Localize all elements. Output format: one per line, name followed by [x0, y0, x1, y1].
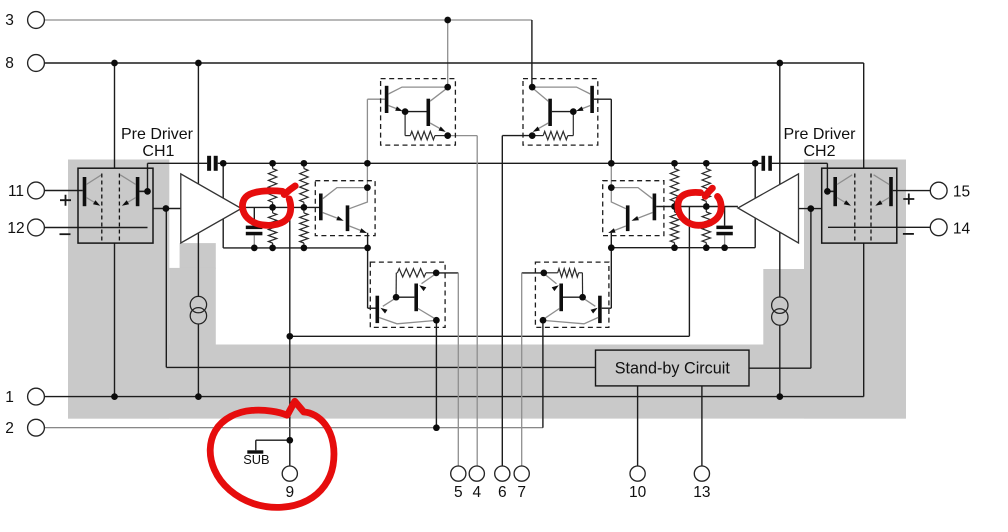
CH1 Q2 emitter wire	[122, 198, 136, 206]
pin 5 terminal	[451, 466, 466, 501]
wire pin14 input	[828, 226, 930, 228]
wire right supply rail x780 upper	[779, 63, 781, 297]
capacitor C1 left coupling	[207, 156, 218, 171]
svg-text:12: 12	[7, 220, 24, 237]
pin 6 terminal	[495, 466, 510, 501]
pin 7 terminal	[514, 466, 529, 501]
bottom-right base wire	[563, 296, 583, 298]
CH1 collector stub to output node	[139, 190, 147, 192]
wire bottom-left block to pin5	[436, 273, 458, 466]
wire left feedback drop	[222, 163, 224, 248]
gray watermark right step column	[763, 269, 804, 345]
gray watermark left step column	[169, 268, 216, 345]
wire right lower rail	[611, 247, 755, 249]
wire left shunt cap stubs	[253, 207, 255, 248]
label Pre Driver CH1	[121, 126, 194, 160]
CH1 Q2 collector wire	[120, 175, 136, 185]
bottom-left transistor Q14 bar	[414, 284, 418, 312]
pin 15 terminal	[930, 182, 970, 200]
center-right Q11 collector wire	[611, 188, 652, 199]
center-left Q9 emitter wire	[323, 213, 344, 221]
svg-text:15: 15	[953, 183, 970, 200]
wire left output block to pin2 rail	[435, 320, 437, 428]
wire amp1 input node down to stand-by feed	[165, 209, 167, 368]
resistor R10 top-right	[532, 112, 573, 140]
bottom-left Q14 collector wire	[418, 309, 436, 320]
wire CH2 output corner to cap node	[827, 163, 833, 191]
wire right VCC drop to CH2 pre-driver	[863, 63, 865, 168]
wire center-left block collector drop	[366, 163, 368, 187]
svg-text:10: 10	[629, 484, 647, 501]
CH1 Q1 collector wire	[86, 175, 101, 185]
top-right transistor Q8 bar	[548, 99, 552, 126]
wire top-left block resistor to pin4	[448, 136, 478, 466]
wire stand-by feed right	[749, 367, 811, 369]
bottom-left base wire	[396, 296, 414, 298]
wire CH1 pre-driver bottom to pin1 rail	[114, 243, 116, 397]
gray watermark left column	[68, 160, 169, 419]
capacitor C3 left shunt	[246, 226, 263, 236]
resistor left lower R4	[300, 207, 308, 248]
top-right Q7 emitter wire	[576, 106, 590, 112]
wire left lower rail into bottom-left block	[368, 248, 378, 308]
wire pin8 VCC rail	[44, 62, 863, 64]
wire pin15 input	[893, 190, 931, 192]
bottom-right Q15 collector wire	[543, 318, 598, 324]
top-right dashed block	[523, 79, 598, 146]
wire junction dots	[111, 17, 814, 444]
junction center-right collector node	[608, 184, 615, 191]
wire CH1 pre-driver to amp1 input	[153, 208, 181, 210]
resistor left upper R3	[300, 163, 308, 207]
junction bottom-right emitter rail node	[540, 317, 547, 324]
CH2 collector stub to output node	[827, 190, 833, 192]
resistor R9 top-left	[405, 112, 448, 140]
op-amp A1 CH1	[181, 174, 242, 243]
bottom-right dashed block	[535, 262, 609, 327]
top-left transistor Q5 bar	[385, 86, 389, 113]
top-right base wire	[552, 111, 573, 113]
red annotation circle right node	[678, 188, 721, 225]
wire right shunt cap stubs	[724, 207, 726, 248]
top-left dashed block	[381, 79, 456, 146]
wire center-right block collector drop	[610, 163, 612, 187]
wire right lower rail into bottom-right block	[602, 248, 612, 309]
center-left transistor Q9 bar	[319, 194, 323, 221]
junction top-right collector node	[529, 84, 536, 91]
bottom-left dashed block	[370, 262, 445, 327]
svg-text:8: 8	[5, 55, 14, 72]
pin 11 terminal	[8, 182, 44, 200]
bottom-left Q13 emitter wire	[380, 298, 396, 314]
CH2 pre-driver box	[822, 168, 897, 243]
junction CH2 output node	[824, 188, 831, 195]
CH2 input transistor Q4 bar	[889, 177, 893, 206]
CH2 Q4 emitter wire	[875, 198, 889, 206]
label plus CH1	[60, 195, 71, 206]
svg-text:9: 9	[285, 484, 294, 501]
svg-text:2: 2	[5, 420, 14, 437]
center-right transistor Q12 bar	[626, 205, 630, 231]
wire amp2 output mid-line	[656, 206, 738, 208]
wire top-right block emitter exit	[594, 99, 611, 163]
op-amp A2 CH2	[738, 174, 799, 243]
CH2 Q4 collector wire	[874, 175, 890, 185]
junction CH1 output node	[144, 188, 151, 195]
center-left Q9 collector wire	[323, 188, 368, 199]
CH1 pre-driver box	[78, 168, 153, 243]
top-right transistor Q7 bar	[590, 86, 594, 113]
bottom-right transistor Q15 bar	[598, 296, 602, 323]
gray watermark bottom band	[68, 345, 906, 419]
pin 2 terminal	[5, 419, 44, 437]
center-left dashed block	[315, 181, 375, 236]
svg-text:CH1: CH1	[142, 143, 174, 160]
CH1 input transistor Q1 bar	[83, 177, 87, 206]
bottom-right Q16 emitter wire	[544, 274, 559, 292]
wire amp2 input node down to stand-by feed	[810, 209, 812, 369]
center-left Q10 emitter wire	[349, 226, 367, 233]
CH2 Q3 emitter wire	[837, 198, 851, 206]
wire bias rail y163	[148, 162, 828, 164]
wire pin2 rail	[44, 427, 543, 429]
resistor right lower R8	[702, 207, 710, 248]
svg-text:7: 7	[517, 484, 526, 501]
junction top-left collector node	[444, 84, 451, 91]
resistor left upper R1	[268, 163, 276, 207]
top-left Q5 emitter wire	[388, 106, 402, 112]
bottom-left Q13 collector wire	[379, 318, 436, 324]
wire right supply rail x780 lower	[779, 325, 781, 396]
junction top-right base node	[570, 108, 577, 115]
CH1 tail dashed wires	[102, 174, 120, 242]
wire center ground rail y336	[290, 335, 690, 337]
junction bottom-right base node	[579, 294, 586, 301]
center-right Q12 collector wire	[611, 188, 626, 209]
svg-text:3: 3	[5, 12, 14, 29]
wire right feedback drop	[754, 163, 756, 247]
capacitor C4 right shunt	[716, 226, 732, 236]
svg-text:SUB: SUB	[243, 452, 269, 467]
wire stand-by feed left	[166, 366, 595, 368]
gray watermark right column	[804, 160, 906, 419]
bottom-right Q16 collector wire	[543, 309, 559, 320]
label Stand-by Circuit	[615, 359, 731, 377]
junction bottom-left resistor node	[433, 270, 440, 277]
junction bottom-left base node	[393, 294, 400, 301]
bottom-right Q15 emitter wire	[583, 298, 598, 314]
center-left Q10 collector wire	[349, 188, 367, 209]
gray watermark left patch under triangle	[180, 243, 216, 268]
CH1 Q1 emitter wire	[86, 198, 100, 206]
bottom-right transistor Q16 bar	[559, 284, 563, 312]
wire right output block to pin2 rail	[542, 320, 544, 428]
pin 14 terminal	[930, 219, 970, 237]
top-right Q8 collector wire	[532, 88, 548, 102]
svg-text:14: 14	[953, 220, 971, 237]
wire pin3 top rail	[44, 20, 532, 87]
center-left transistor Q10 bar	[346, 205, 350, 231]
svg-text:Stand-by Circuit: Stand-by Circuit	[615, 359, 731, 377]
junction top-left base node	[402, 108, 409, 115]
wire right mid-line drop to rail y336	[688, 207, 690, 337]
CH1 input transistor Q2 bar	[136, 177, 140, 206]
pin 4 terminal	[469, 466, 484, 501]
wire left lower rail	[223, 247, 367, 249]
pin 9 terminal	[282, 466, 297, 501]
wire CH2 pre-driver to amp2 input	[799, 208, 823, 210]
CH2 input transistor Q3 bar	[833, 177, 837, 206]
center-right transistor Q11 bar	[653, 194, 657, 221]
svg-text:1: 1	[5, 389, 14, 406]
pin 10 terminal	[629, 466, 647, 501]
wire top-right block resistor to pin6	[502, 136, 532, 466]
bottom-left Q14 emitter wire	[419, 274, 436, 292]
wire pin1 ground rail	[44, 396, 863, 398]
pin 1 terminal	[5, 388, 44, 406]
wire pin11 input	[44, 190, 82, 192]
top-left Q5 collector wire	[388, 87, 447, 94]
svg-text:5: 5	[454, 484, 463, 501]
pin 12 terminal	[7, 219, 44, 237]
wire stand-by to pin10	[637, 386, 639, 466]
junction top-right resistor node	[529, 132, 536, 139]
resistor right upper R7	[702, 163, 710, 206]
wire left supply rail x199 lower	[197, 324, 199, 397]
wire CH2 pre-driver bottom to pin1 rail	[863, 243, 865, 397]
ground SUB symbol	[243, 450, 269, 467]
svg-text:4: 4	[472, 484, 481, 501]
svg-text:6: 6	[498, 484, 507, 501]
stand-by circuit box	[596, 350, 750, 386]
wire pin12 input	[44, 227, 147, 229]
wire branch to top-left transistor block	[447, 20, 449, 87]
wire CH1 output corner to cap node	[139, 163, 147, 191]
wire SUB branch	[256, 440, 290, 450]
pin 3 terminal	[5, 12, 44, 30]
current source right	[772, 297, 788, 325]
wire left VCC drop to CH1 pre-driver	[114, 63, 116, 168]
pin 8 terminal	[5, 55, 44, 73]
label minus CH1	[60, 233, 71, 235]
top-left Q6 emitter wire	[430, 123, 448, 136]
junction bottom-left emitter rail node	[433, 317, 440, 324]
label plus CH2	[903, 194, 914, 205]
resistor right upper R5	[670, 163, 678, 206]
wire left supply rail x199 upper	[197, 63, 199, 297]
resistor R12 bottom-right	[544, 269, 583, 298]
wire center-right block emitter to lower rail	[610, 233, 612, 248]
junction center-left collector node	[364, 184, 371, 191]
resistor right lower R6	[670, 207, 678, 248]
CH2 Q3 collector wire	[837, 175, 852, 185]
CH2 tail dashed wires	[855, 174, 871, 242]
top-left transistor Q6 bar	[427, 99, 431, 126]
center-right Q12 emitter wire	[608, 226, 626, 233]
top-right Q8 emitter wire	[532, 123, 548, 136]
red annotation circle left node	[242, 186, 295, 225]
red annotation circle SUB pin9	[210, 401, 334, 507]
junction top-left resistor node	[444, 132, 451, 139]
wire top-left block emitter exit	[367, 99, 386, 163]
top-left base wire	[405, 111, 426, 113]
svg-text:13: 13	[693, 484, 710, 501]
resistor left lower R2	[268, 207, 276, 248]
resistor R11 bottom-left	[396, 269, 436, 298]
top-left Q6 collector wire	[430, 88, 448, 102]
svg-text:11: 11	[8, 183, 24, 200]
wire substrate line to pin9	[289, 207, 291, 466]
pin 13 terminal	[693, 466, 710, 501]
svg-text:CH2: CH2	[803, 143, 835, 160]
current source left	[190, 296, 206, 324]
label minus CH2	[903, 233, 914, 235]
capacitor C2 right coupling	[762, 156, 772, 171]
center-right Q11 emitter wire	[632, 213, 653, 221]
top-right Q7 collector wire	[532, 87, 590, 94]
wire bottom-right block to pin7	[522, 273, 544, 466]
svg-text:Pre Driver: Pre Driver	[121, 126, 194, 143]
bottom-left transistor Q13 bar	[376, 296, 380, 323]
center-right dashed block	[603, 181, 664, 236]
svg-text:Pre Driver: Pre Driver	[783, 126, 856, 143]
wire stand-by to pin13	[701, 386, 703, 466]
wire center-left block emitter to lower rail	[367, 233, 369, 248]
junction bottom-right resistor node	[540, 270, 547, 277]
label Pre Driver CH2	[783, 126, 856, 160]
wire amp1 output mid-line	[241, 206, 321, 208]
